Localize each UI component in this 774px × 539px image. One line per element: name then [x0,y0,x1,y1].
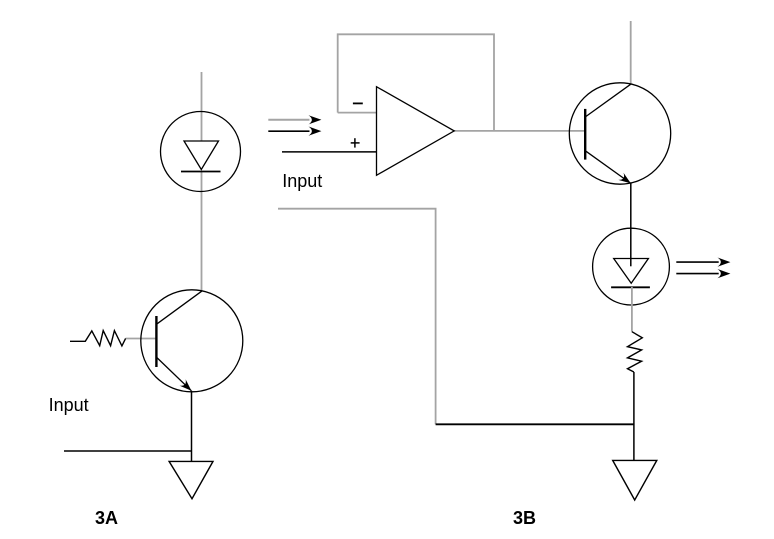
wire LED to resistor R2 (gray) [631,287,633,332]
photodiode D1 triangle [184,141,219,170]
wire Q1 emitter to ground (black vertical) [191,391,193,462]
photodiode D1 cathode bar [181,171,221,173]
feedback loop wire (gray) [338,34,494,131]
op-amp plus sign [351,142,360,144]
transistor Q2 emitter arrowhead [618,173,633,187]
transistor Q2 base bar [584,109,586,160]
wire ground bus bottom (black horizontal) [436,423,634,425]
op-amp minus sign [353,102,363,104]
transistor Q1 emitter lead [156,357,191,391]
svg-text:3A: 3A [95,508,118,528]
wire photodiode D1 cathode to Q1 collector (gray vertical) [201,172,203,292]
light input arrow upper (gray shaft) [268,119,309,121]
transistor Q1 collector lead [156,291,201,324]
wire to op-amp inverting input (gray) [338,112,377,114]
LED D2 cathode bar [611,286,650,288]
light input arrow lower (black shaft) [268,130,309,132]
wire input line to ground bus (gray) [278,209,436,425]
ground 3B [613,460,657,500]
transistor Q1 base bar [155,316,157,367]
resistor R2 [628,332,643,372]
wire supply to photodiode D1 (gray vertical) [201,72,203,141]
transistor Q2 circle [569,83,670,184]
light output arrow upper [676,261,718,263]
transistor Q2 emitter lead [585,151,631,184]
photodiode D1 circle [161,112,241,192]
svg-text:3B: 3B [513,508,536,528]
wire Q2 emitter to LED (black vertical) [630,183,632,266]
wire op-amp output to Q2 base (gray) [454,130,585,132]
LED D2 triangle [614,259,649,284]
transistor Q1 emitter arrowhead [180,379,195,394]
ground 3A [169,461,213,498]
LED D2 circle [593,228,670,305]
transistor Q2 collector lead [585,84,630,117]
wire resistor R1 to Q1 base (gray) [126,338,157,340]
resistor R1 [70,331,126,346]
wire resistor R2 to ground (black vertical) [633,372,635,460]
wire input bottom line 3A [64,450,192,452]
svg-text:Input: Input [282,171,322,191]
transistor Q1 circle [141,290,243,392]
svg-text:Input: Input [49,395,89,415]
wire op-amp noninverting input (black) [282,151,377,153]
light output arrow lower [676,273,718,275]
op-amp U1 triangle [377,87,455,176]
wire Q2 collector supply (gray vertical) [630,21,632,84]
